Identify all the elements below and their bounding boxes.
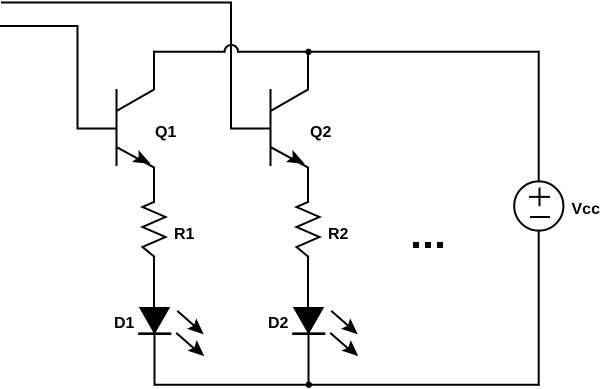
voltage source Vcc: [514, 181, 563, 230]
diode D2 (LED): [294, 308, 325, 334]
wire hop over vertical at x=231: [225, 45, 239, 52]
wire Vcc bottom drop: [538, 231, 540, 385]
svg-text:Q1: Q1: [155, 124, 176, 141]
wire Vcc rail left segment: [154, 51, 225, 53]
wire bottom rail: [155, 384, 539, 386]
LED light arrow 1 of D1: [178, 312, 203, 334]
wire D2 to bottom rail: [308, 334, 310, 385]
node junction D2 wire to bottom rail: [306, 382, 312, 388]
LED light arrow 1 of D2: [332, 312, 357, 334]
LED light arrow 2 of D2: [331, 334, 357, 356]
transistor Q2: [271, 52, 309, 202]
wire Vcc rail right segment: [238, 51, 539, 53]
wire top feed vertical drop x=231: [230, 3, 232, 129]
wire top feed horizontal: [2, 2, 231, 4]
wire second feed vertical drop x=77.5: [77, 26, 79, 129]
wire Vcc top drop: [538, 52, 540, 182]
wire Q1 base link: [78, 128, 116, 130]
wire D1 to bottom rail: [154, 334, 156, 385]
node junction rail to Q2 collector: [305, 49, 311, 55]
LED light arrow 2 of D1: [177, 334, 203, 356]
svg-text:Vcc: Vcc: [572, 201, 600, 218]
wire R1 to D1: [153, 257, 155, 309]
wire Q2 base link: [231, 128, 270, 130]
transistor Q1: [117, 52, 155, 202]
diode D1 (LED): [140, 308, 171, 334]
svg-text:D2: D2: [268, 315, 289, 332]
svg-text:R2: R2: [328, 226, 349, 243]
resistor R2: [297, 202, 320, 257]
svg-text:D1: D1: [114, 315, 135, 332]
resistor R1: [143, 202, 166, 257]
svg-text:R1: R1: [174, 226, 195, 243]
svg-text:Q2: Q2: [310, 124, 331, 141]
wire second feed horizontal: [0, 25, 78, 27]
wire R2 to D2: [307, 257, 309, 309]
ellipsis continuation dots: [413, 242, 443, 248]
